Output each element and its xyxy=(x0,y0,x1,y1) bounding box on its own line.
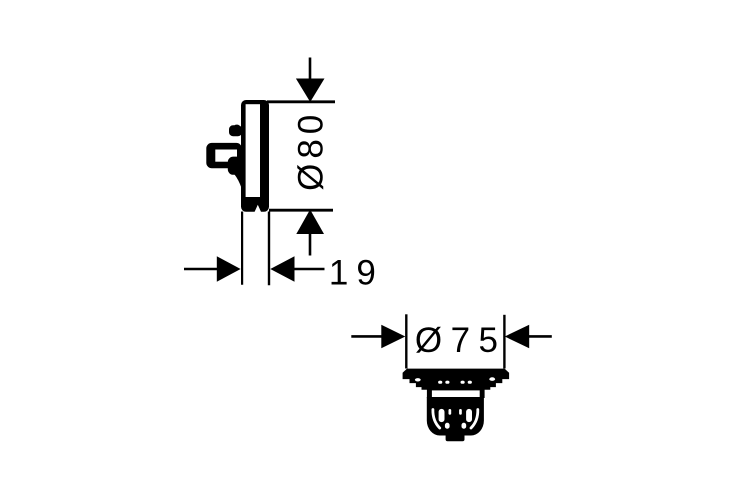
dim Ø75 right extension line xyxy=(503,315,505,369)
cup slot right large xyxy=(466,409,472,422)
overflow hose connector body xyxy=(206,143,242,168)
dim 19 right tail xyxy=(294,268,325,271)
svg-text:Ø80: Ø80 xyxy=(291,110,330,191)
cup slot right crescent xyxy=(471,410,478,429)
extension line left (plate back face) xyxy=(241,212,243,285)
svg-text:19: 19 xyxy=(329,253,384,292)
dim Ø75 left head (right-pointing) xyxy=(381,325,405,348)
dim arrow Ø80 bottom (up) head xyxy=(296,210,324,235)
strainer flange (stepped) xyxy=(403,369,510,390)
cup slot top small left xyxy=(449,409,452,415)
overflow body top lug xyxy=(229,125,242,137)
strainer neck white slot xyxy=(432,390,480,397)
dim Ø75 left tail xyxy=(351,335,382,338)
dim line Ø80 top horizontal xyxy=(267,100,335,103)
overflow body bottom lug xyxy=(228,157,242,175)
cup slot lower right xyxy=(462,423,467,429)
cup slot left large xyxy=(439,409,445,422)
plate bottom notch xyxy=(254,205,261,213)
flange white dot mid 1 xyxy=(438,381,442,384)
dim line Ø80 bottom horizontal xyxy=(269,209,333,212)
dim 19 left head (right-pointing) xyxy=(217,256,241,281)
strainer foot xyxy=(446,432,465,441)
cup slot top small right xyxy=(459,409,462,415)
flange white dot mid 4 xyxy=(468,381,472,384)
dim 19 left tail xyxy=(184,268,218,271)
cup slot lower left xyxy=(445,423,450,429)
plate edge flare below lug xyxy=(235,171,242,188)
connector white window xyxy=(215,150,237,162)
escutcheon plate side view (outer body) xyxy=(241,100,269,213)
flange white dot mid 2 xyxy=(445,381,449,384)
extension line right (plate front face) xyxy=(268,212,270,286)
strainer neck xyxy=(427,390,485,399)
dim Ø75 right head (left-pointing) xyxy=(505,325,530,348)
strainer cup xyxy=(427,397,484,436)
dim arrow Ø80 top (down) tail xyxy=(309,58,312,81)
flange white dot far left xyxy=(415,378,421,381)
flange white dot mid 3 xyxy=(461,381,465,384)
dim Ø75 left extension line xyxy=(405,314,407,368)
flange white dot far right xyxy=(489,377,495,381)
dim Ø75 right tail xyxy=(529,335,552,338)
dim 19 right head (left-pointing) xyxy=(270,256,294,281)
dim arrow Ø80 top (down) head xyxy=(296,79,325,103)
dim arrow Ø80 bottom (up) tail xyxy=(309,234,312,256)
svg-text:Ø75: Ø75 xyxy=(415,321,507,360)
cup slot left crescent xyxy=(433,410,440,429)
